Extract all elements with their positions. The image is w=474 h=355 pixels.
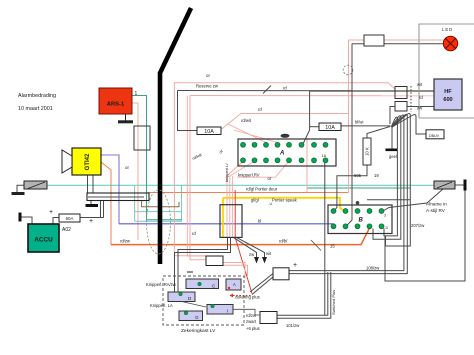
- svg-text:knipperl.L/: knipperl.L/: [224, 163, 229, 182]
- minus mark: [187, 271, 193, 273]
- wire salmon out of knipper box a: [223, 263, 245, 279]
- svg-text:DBUV: DBUV: [429, 134, 440, 138]
- svg-text:101/zw: 101/zw: [286, 323, 300, 328]
- module A small: [226, 279, 241, 290]
- svg-text:605: 605: [354, 173, 362, 178]
- wire battery plus feed: [80, 217, 104, 219]
- svg-text:+6 plus: +6 plus: [246, 326, 260, 331]
- wire bundle c5 to DBUV: [392, 115, 426, 134]
- svg-text:15: 15: [330, 244, 335, 249]
- lamp LED: [442, 27, 458, 51]
- terminal strip: [87, 193, 149, 201]
- wire LED dark to lamp: [384, 43, 443, 45]
- wire reserve zw: [178, 90, 353, 92]
- wire fuse10A right stub: [310, 126, 319, 128]
- wire junction to resistor: [367, 127, 390, 139]
- connector pass-through box: [134, 126, 150, 150]
- wire brown staple: [142, 201, 179, 207]
- svg-text:rd/zw: rd/zw: [246, 313, 257, 318]
- wire salmon knipper RV horizontal: [237, 162, 288, 177]
- wire salmon triple 3: [231, 176, 233, 237]
- boundary gray bottom edge: [419, 117, 474, 119]
- wire pink diagonal to pin A4: [234, 130, 278, 143]
- wire red knipper vertical: [234, 190, 236, 237]
- svg-text:+: +: [293, 262, 297, 269]
- wire pickup to terminal: [455, 184, 464, 186]
- svg-text:rd/gl Portier deur: rd/gl Portier deur: [246, 187, 278, 192]
- svg-text:geel: geel: [389, 154, 397, 159]
- wire LED dark horizontal: [352, 43, 364, 45]
- arrow zw head: [254, 257, 259, 264]
- wire yellow to block B: [223, 198, 345, 211]
- wire GTI42 bottom a: [87, 175, 89, 193]
- wire dark pair to module D a: [178, 237, 228, 292]
- svg-text:Afname in: Afname in: [426, 202, 447, 207]
- pickup A-stijl: [434, 180, 465, 191]
- siren GTI42: [62, 148, 101, 175]
- fuse 10A right: [319, 123, 341, 131]
- wire orange from GTI42 down: [101, 162, 111, 245]
- wire fuse bottom diag a: [250, 274, 273, 293]
- svg-text:16: 16: [322, 153, 327, 158]
- fuse 10A left: [197, 127, 221, 135]
- fusebox dashed border: [163, 276, 244, 325]
- relay ARS-1: [99, 88, 132, 114]
- box DBUV: [426, 130, 444, 139]
- fuse 60A: [59, 214, 80, 222]
- connector mating dashes: [410, 86, 412, 112]
- svg-text:+: +: [89, 218, 93, 225]
- wire teal horizontal to block A pin A5: [135, 220, 182, 222]
- wire arrow diag zw: [234, 237, 257, 257]
- wire salmon LED horizontal: [349, 39, 446, 41]
- wire pickup diagonal to pin B5: [382, 189, 443, 212]
- wire horizontal y91 to HF600: [310, 90, 434, 92]
- svg-text:gl/gl: gl/gl: [251, 198, 259, 203]
- wire teal branch second vertical staple: [181, 185, 183, 221]
- wire reserve zw vertical to fuse 10A left: [178, 91, 198, 131]
- wire junction ground stem: [391, 127, 393, 149]
- arrow wit head: [262, 257, 267, 264]
- wire vertical to pin A6: [303, 91, 310, 144]
- wire accu minus: [21, 217, 32, 224]
- wire blue horizontal bl: [119, 224, 334, 226]
- wire resistor bottom to block B: [334, 165, 367, 211]
- grommet dashed circle: [343, 65, 353, 75]
- boundary gray box top right: [419, 24, 474, 118]
- ground geel: [386, 149, 398, 152]
- svg-text:D: D: [386, 226, 389, 230]
- wire salmon triple 2: [230, 161, 255, 237]
- ground bar accu: [19, 213, 22, 222]
- wire bundle c4 108zw: [289, 114, 407, 273]
- wire bundle c3 108zw: [289, 115, 404, 271]
- connector block A: [238, 134, 336, 166]
- svg-text:or: or: [125, 165, 129, 170]
- svg-text:19: 19: [374, 173, 379, 178]
- svg-text:1: 1: [135, 91, 138, 97]
- WIRES-DARK: [17, 44, 465, 319]
- wire teal branch left vertical: [134, 185, 136, 221]
- svg-text:A-stijl RV: A-stijl RV: [426, 208, 446, 213]
- wire slash on reserve: [263, 86, 271, 94]
- wire strip inner: [88, 196, 144, 198]
- wire strip ground stem: [90, 201, 92, 205]
- wire plus riser b: [103, 201, 105, 218]
- svg-text:Zekeringkast LV: Zekeringkast LV: [181, 328, 216, 334]
- connector pair lower: [395, 102, 407, 112]
- svg-text:3: 3: [384, 214, 386, 218]
- wire zw junction riser: [390, 107, 395, 125]
- box 101zw: [260, 312, 277, 324]
- wire module I to box101: [233, 309, 260, 315]
- svg-text:Knipperl. RA/zw: Knipperl. RA/zw: [146, 282, 177, 287]
- svg-text:or: or: [268, 176, 272, 181]
- wire pink loop2b: [187, 96, 206, 257]
- wire pink from ARS-1: [132, 103, 138, 240]
- svg-text:A: A: [279, 151, 284, 157]
- svg-text:Switched Plus: Switched Plus: [331, 290, 336, 315]
- resistor 10K: [363, 138, 371, 165]
- wire bundle c1: [384, 117, 397, 236]
- svg-text:Reserve zw: Reserve zw: [196, 84, 219, 89]
- svg-text:ACCU: ACCU: [34, 237, 53, 244]
- svg-text:I: I: [227, 309, 228, 314]
- svg-text:G: G: [195, 315, 199, 320]
- wire salmon vertical x307: [306, 138, 308, 193]
- svg-text:A: A: [233, 282, 236, 287]
- wire bundle c2: [373, 116, 401, 240]
- module G: [179, 311, 203, 321]
- wire pink loop2: [190, 96, 206, 260]
- wire dark pair to module D b: [175, 237, 231, 292]
- svg-text:GTI42: GTI42: [85, 153, 91, 170]
- svg-text:10A: 10A: [204, 129, 214, 135]
- wire 207zw loop from pickup terminal: [385, 190, 465, 282]
- svg-text:zekering plus: zekering plus: [235, 295, 260, 300]
- wire green horizontal y188: [307, 187, 410, 189]
- WIRES-COLORED: [47, 40, 445, 294]
- red dashed arrow zekering: [230, 294, 252, 298]
- wire switched plus pair b: [277, 272, 331, 318]
- svg-text:rd/zw: rd/zw: [120, 239, 131, 244]
- wire pink bus y113: [221, 114, 349, 130]
- pin switch left: [12, 181, 48, 194]
- wire teal inner horizontal: [135, 211, 182, 213]
- svg-text:Knipperl. LA: Knipperl. LA: [150, 303, 173, 308]
- connector block B: [328, 201, 392, 234]
- svg-text:60A: 60A: [66, 216, 74, 221]
- module D: [168, 292, 195, 302]
- wire block A pin8 long vertical: [324, 161, 326, 315]
- small box knipper: [206, 256, 223, 266]
- grommet ellipse: [147, 190, 171, 254]
- wire switched plus pair a: [277, 272, 328, 315]
- svg-text:+: +: [49, 209, 53, 216]
- wire pink diagonal to pin A3: [228, 124, 266, 143]
- wire bl/wi fuse to junction: [341, 125, 391, 127]
- wire accu plus: [53, 218, 59, 225]
- svg-text:wit: wit: [417, 82, 423, 87]
- wire pink rd to HF600: [190, 95, 434, 97]
- wire purple from GTI42: [101, 155, 119, 224]
- svg-text:A02: A02: [62, 227, 71, 233]
- wire salmon out of knipper box b: [223, 265, 248, 276]
- svg-text:bl: bl: [258, 219, 261, 224]
- svg-text:rd/wit: rd/wit: [241, 118, 252, 123]
- firewall thick line: [160, 8, 191, 264]
- wire HF600 zw: [407, 106, 434, 108]
- svg-text:10 maart 2001: 10 maart 2001: [18, 106, 53, 112]
- wire elbow y200 right of resistor: [367, 199, 410, 201]
- wire yellow vertical through connector: [222, 198, 224, 237]
- ground bar strip: [86, 204, 99, 207]
- fuse top LED: [364, 35, 384, 46]
- wire GTI42 bottom b: [92, 175, 94, 193]
- module I: [207, 304, 233, 314]
- wire orange slash switch: [311, 240, 321, 251]
- svg-text:600: 600: [443, 97, 452, 103]
- wire salmon LED vertical: [348, 40, 350, 192]
- svg-text:knipperl.RV: knipperl.RV: [238, 173, 260, 178]
- svg-text:LED: LED: [442, 27, 453, 32]
- svg-text:zwart: zwart: [246, 319, 257, 324]
- wire teal main horizontal: [47, 184, 434, 186]
- svg-text:or: or: [206, 73, 210, 78]
- wire red to zekering plus: [235, 237, 252, 293]
- wire orange main horizontal rd/zw: [111, 228, 370, 245]
- svg-text:wit: wit: [266, 251, 272, 256]
- fuse bottom right: [273, 268, 289, 280]
- svg-text:rd/bl: rd/bl: [279, 239, 288, 244]
- svg-text:Portier speak: Portier speak: [272, 198, 298, 203]
- wire pink loop1: [174, 83, 395, 256]
- wire pin switch to ground: [17, 185, 24, 192]
- svg-text:HF: HF: [444, 89, 452, 95]
- connector tall portier: [220, 205, 242, 238]
- wire arrow diag wit: [237, 237, 265, 257]
- svg-text:207/zw: 207/zw: [411, 223, 425, 228]
- svg-text:B: B: [359, 218, 364, 224]
- svg-text:Alarmbedrading: Alarmbedrading: [18, 93, 56, 99]
- svg-text:10 K: 10 K: [365, 147, 370, 156]
- module HF600: [434, 79, 462, 110]
- wire green from ARS-1: [132, 96, 182, 220]
- battery ACCU: [28, 224, 59, 252]
- svg-text:10A: 10A: [325, 125, 335, 131]
- connector pair upper: [395, 87, 407, 99]
- pins block A: [241, 142, 328, 162]
- ARS-1 stand: [118, 114, 133, 122]
- wire fuse bottom diag b: [252, 277, 273, 295]
- wire bundle c6: [386, 113, 411, 246]
- wire salmon triple into connector top: [227, 161, 243, 237]
- wire plus riser a: [100, 201, 102, 218]
- svg-text:bl/wi: bl/wi: [355, 120, 363, 125]
- wire orange rd/gl portier: [148, 192, 349, 194]
- wire module D to I: [181, 301, 206, 307]
- svg-text:ARS-1: ARS-1: [107, 102, 125, 108]
- pins block B: [331, 209, 384, 229]
- wire vertical x352 to block B: [346, 44, 352, 227]
- svg-text:108/zw: 108/zw: [366, 266, 380, 271]
- module C: [186, 279, 219, 289]
